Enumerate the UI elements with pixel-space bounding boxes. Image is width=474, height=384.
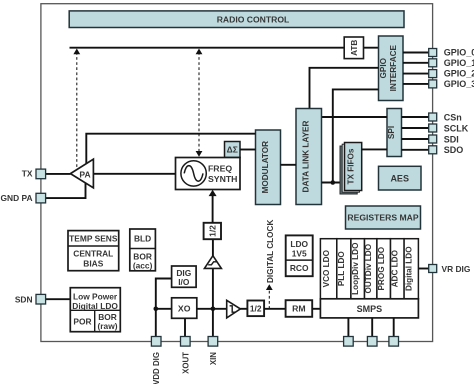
XO block (172, 298, 197, 319)
svg-text:XIN: XIN (209, 352, 218, 365)
junction VDD DIG / XO (154, 307, 159, 312)
LDO Digital (404, 239, 418, 299)
wire data link layer to SPI (322, 116, 388, 118)
svg-text:GPIO_0: GPIO_0 (444, 48, 474, 58)
data link layer block (296, 109, 322, 205)
svg-text:Digital LDO: Digital LDO (72, 301, 118, 311)
svg-text:OUTDiv LDO: OUTDiv LDO (364, 243, 373, 293)
svg-text:SDI: SDI (444, 134, 459, 144)
pin SMPS out 3 (389, 337, 399, 347)
freq synth block (176, 158, 241, 190)
svg-text:GPIO: GPIO (379, 57, 388, 78)
svg-text:POR: POR (73, 316, 91, 326)
SPI block (387, 109, 402, 157)
wire LDO to VR DIG pin (418, 268, 428, 270)
svg-text:ATB: ATB (350, 40, 359, 56)
svg-text:Low Power: Low Power (73, 291, 118, 301)
wire XO to XOUT pin (184, 318, 186, 338)
registers map block (346, 206, 421, 229)
pin SDN (15, 294, 46, 304)
pin VDD DIG (151, 337, 161, 384)
svg-text:RCO: RCO (290, 263, 309, 273)
pin SDI (429, 134, 459, 144)
wire 1/2 to RM (264, 308, 286, 310)
wire xtal buffer to divider (212, 239, 214, 256)
wire GND PA to PA (46, 183, 86, 198)
svg-text:RADIO CONTROL: RADIO CONTROL (217, 14, 290, 24)
BLD / BOR(acc) block (130, 229, 156, 271)
wire PA to modulator (upper) (86, 134, 255, 165)
svg-text:SDO: SDO (444, 145, 464, 155)
modulator block (256, 130, 281, 205)
svg-text:1/2: 1/2 (250, 304, 262, 314)
svg-text:LoopDiv LDO: LoopDiv LDO (351, 242, 360, 295)
pin GPIO_1 (429, 58, 474, 68)
svg-text:BIAS: BIAS (83, 259, 103, 269)
svg-text:MODULATOR: MODULATOR (261, 141, 270, 194)
AES block (379, 166, 422, 190)
GPIO interface block (379, 36, 404, 101)
svg-text:CSn: CSn (444, 112, 462, 122)
svg-text:PA: PA (79, 169, 90, 179)
wire TX FIFOs to SPI (362, 148, 387, 150)
dashed digital clock arrow (266, 220, 275, 309)
svg-text:1/2: 1/2 (207, 225, 217, 237)
ATB block (344, 37, 363, 59)
svg-text:VCO LDO: VCO LDO (322, 249, 331, 287)
svg-text:CENTRAL: CENTRAL (73, 249, 113, 259)
svg-text:SDN: SDN (15, 294, 33, 304)
wire divider to freq synth (arrow up) (209, 190, 217, 223)
svg-text:(acc): (acc) (133, 261, 153, 271)
svg-text:VR DIG: VR DIG (442, 264, 471, 274)
svg-text:RM: RM (292, 304, 306, 314)
wire SDN to low power LDO (46, 298, 71, 300)
svg-text:1V5: 1V5 (292, 249, 307, 259)
dashed control line to PA (73, 49, 80, 170)
svg-text:XO: XO (178, 303, 191, 313)
svg-text:Digital LDO: Digital LDO (405, 246, 414, 291)
SMPS block (320, 299, 418, 318)
svg-text:GPIO_3: GPIO_3 (444, 79, 474, 89)
svg-text:VDD DIG: VDD DIG (152, 352, 161, 384)
svg-text:(raw): (raw) (97, 321, 117, 331)
wire buffer to 1/2 (240, 308, 247, 310)
pin SMPS out 1 (344, 337, 354, 347)
RM block (286, 300, 313, 317)
svg-text:LDO: LDO (290, 239, 308, 249)
dashed control line to FREQ SYNTH (196, 49, 203, 157)
wire data link layer to GPIO interface (310, 68, 379, 109)
divider 1/2 (vertical) (204, 223, 221, 239)
pin TX (22, 169, 46, 179)
svg-text:SCLK: SCLK (444, 123, 469, 133)
svg-text:REGISTERS MAP: REGISTERS MAP (347, 213, 418, 223)
pin VR DIG (429, 264, 471, 274)
svg-text:BLD: BLD (134, 234, 151, 244)
LDO ADC (391, 239, 405, 299)
pin CSn (429, 112, 462, 122)
pin GPIO_0 (429, 48, 474, 58)
wire VDD DIG junction to XO (156, 308, 172, 310)
PA amplifier (70, 159, 93, 188)
divider 1/2 (horizontal) (247, 301, 264, 317)
svg-text:SPI: SPI (387, 126, 396, 139)
wire modulator to data link layer (281, 164, 297, 166)
wire VDD DIG to DIG I/O (156, 279, 172, 339)
low power digital LDO / POR / BOR(raw) block (70, 288, 120, 332)
pin SDO (429, 145, 464, 155)
LDO OUTDiv (364, 239, 377, 299)
pin SMPS out 2 (367, 337, 377, 347)
svg-text:GPIO_2: GPIO_2 (444, 69, 474, 79)
svg-text:SYNTH: SYNTH (208, 174, 237, 184)
svg-text:TEMP SENS: TEMP SENS (69, 234, 118, 244)
svg-text:TX: TX (22, 169, 33, 179)
pin GPIO_3 (429, 79, 474, 89)
wire XIN to xtal buffer (212, 268, 214, 338)
svg-text:I/O: I/O (178, 277, 190, 287)
radio control bus wire (70, 47, 379, 49)
junction TX FIFOs branch (331, 180, 336, 185)
LDO VCO (320, 239, 336, 299)
svg-text:ADC LDO: ADC LDO (391, 249, 400, 287)
svg-text:TX FIFOs: TX FIFOs (346, 148, 355, 184)
pin XIN (208, 337, 218, 366)
svg-text:INTERFACE: INTERFACE (389, 44, 398, 91)
pin XOUT (181, 337, 191, 374)
LDO PLL (337, 239, 351, 299)
wire GPIO to pins (403, 53, 429, 84)
svg-text:GPIO_1: GPIO_1 (444, 58, 474, 68)
pin SCLK (429, 123, 469, 133)
wire GPIO interface to TX FIFOs branch (333, 89, 379, 182)
svg-text:AES: AES (390, 173, 409, 183)
junction XIN line (211, 307, 216, 312)
wire freq synth to PA (93, 173, 175, 175)
wire XO to squaring buffer (197, 308, 227, 310)
DIG I/O block (172, 266, 197, 287)
LDO LoopDiv (351, 239, 365, 299)
svg-text:PROG LDO: PROG LDO (377, 246, 386, 290)
svg-text:SMPS: SMPS (357, 304, 383, 314)
pin GND PA (1, 193, 46, 203)
delta-sigma block (225, 142, 241, 158)
xtal buffer (up) (204, 256, 221, 269)
svg-text:ΔΣ: ΔΣ (227, 145, 238, 155)
LDO PROG (377, 239, 391, 299)
wire RM to SMPS (312, 308, 320, 310)
temp sens / central bias block (68, 231, 119, 271)
svg-text:DATA LINK LAYER: DATA LINK LAYER (302, 120, 311, 192)
wire data link layer to TX FIFOs (322, 182, 345, 184)
wire delta-sigma to modulator (240, 149, 256, 151)
wire TX pin to PA (41, 173, 70, 175)
LDO 1V5 / RCO block (286, 235, 313, 276)
wire SPI to pins (402, 117, 429, 150)
svg-text:PLL LDO: PLL LDO (337, 251, 346, 287)
svg-text:GND PA: GND PA (1, 193, 33, 203)
svg-text:FREQ: FREQ (208, 163, 232, 173)
pin GPIO_2 (429, 69, 474, 79)
chip outline (41, 4, 433, 342)
svg-text:XOUT: XOUT (181, 352, 190, 374)
svg-text:DIGITAL CLOCK: DIGITAL CLOCK (266, 220, 275, 283)
radio control block (69, 11, 404, 28)
TX FIFOs stack (340, 143, 362, 195)
squaring buffer (right) (227, 300, 241, 318)
wire SMPS to bottom pins (348, 318, 393, 337)
